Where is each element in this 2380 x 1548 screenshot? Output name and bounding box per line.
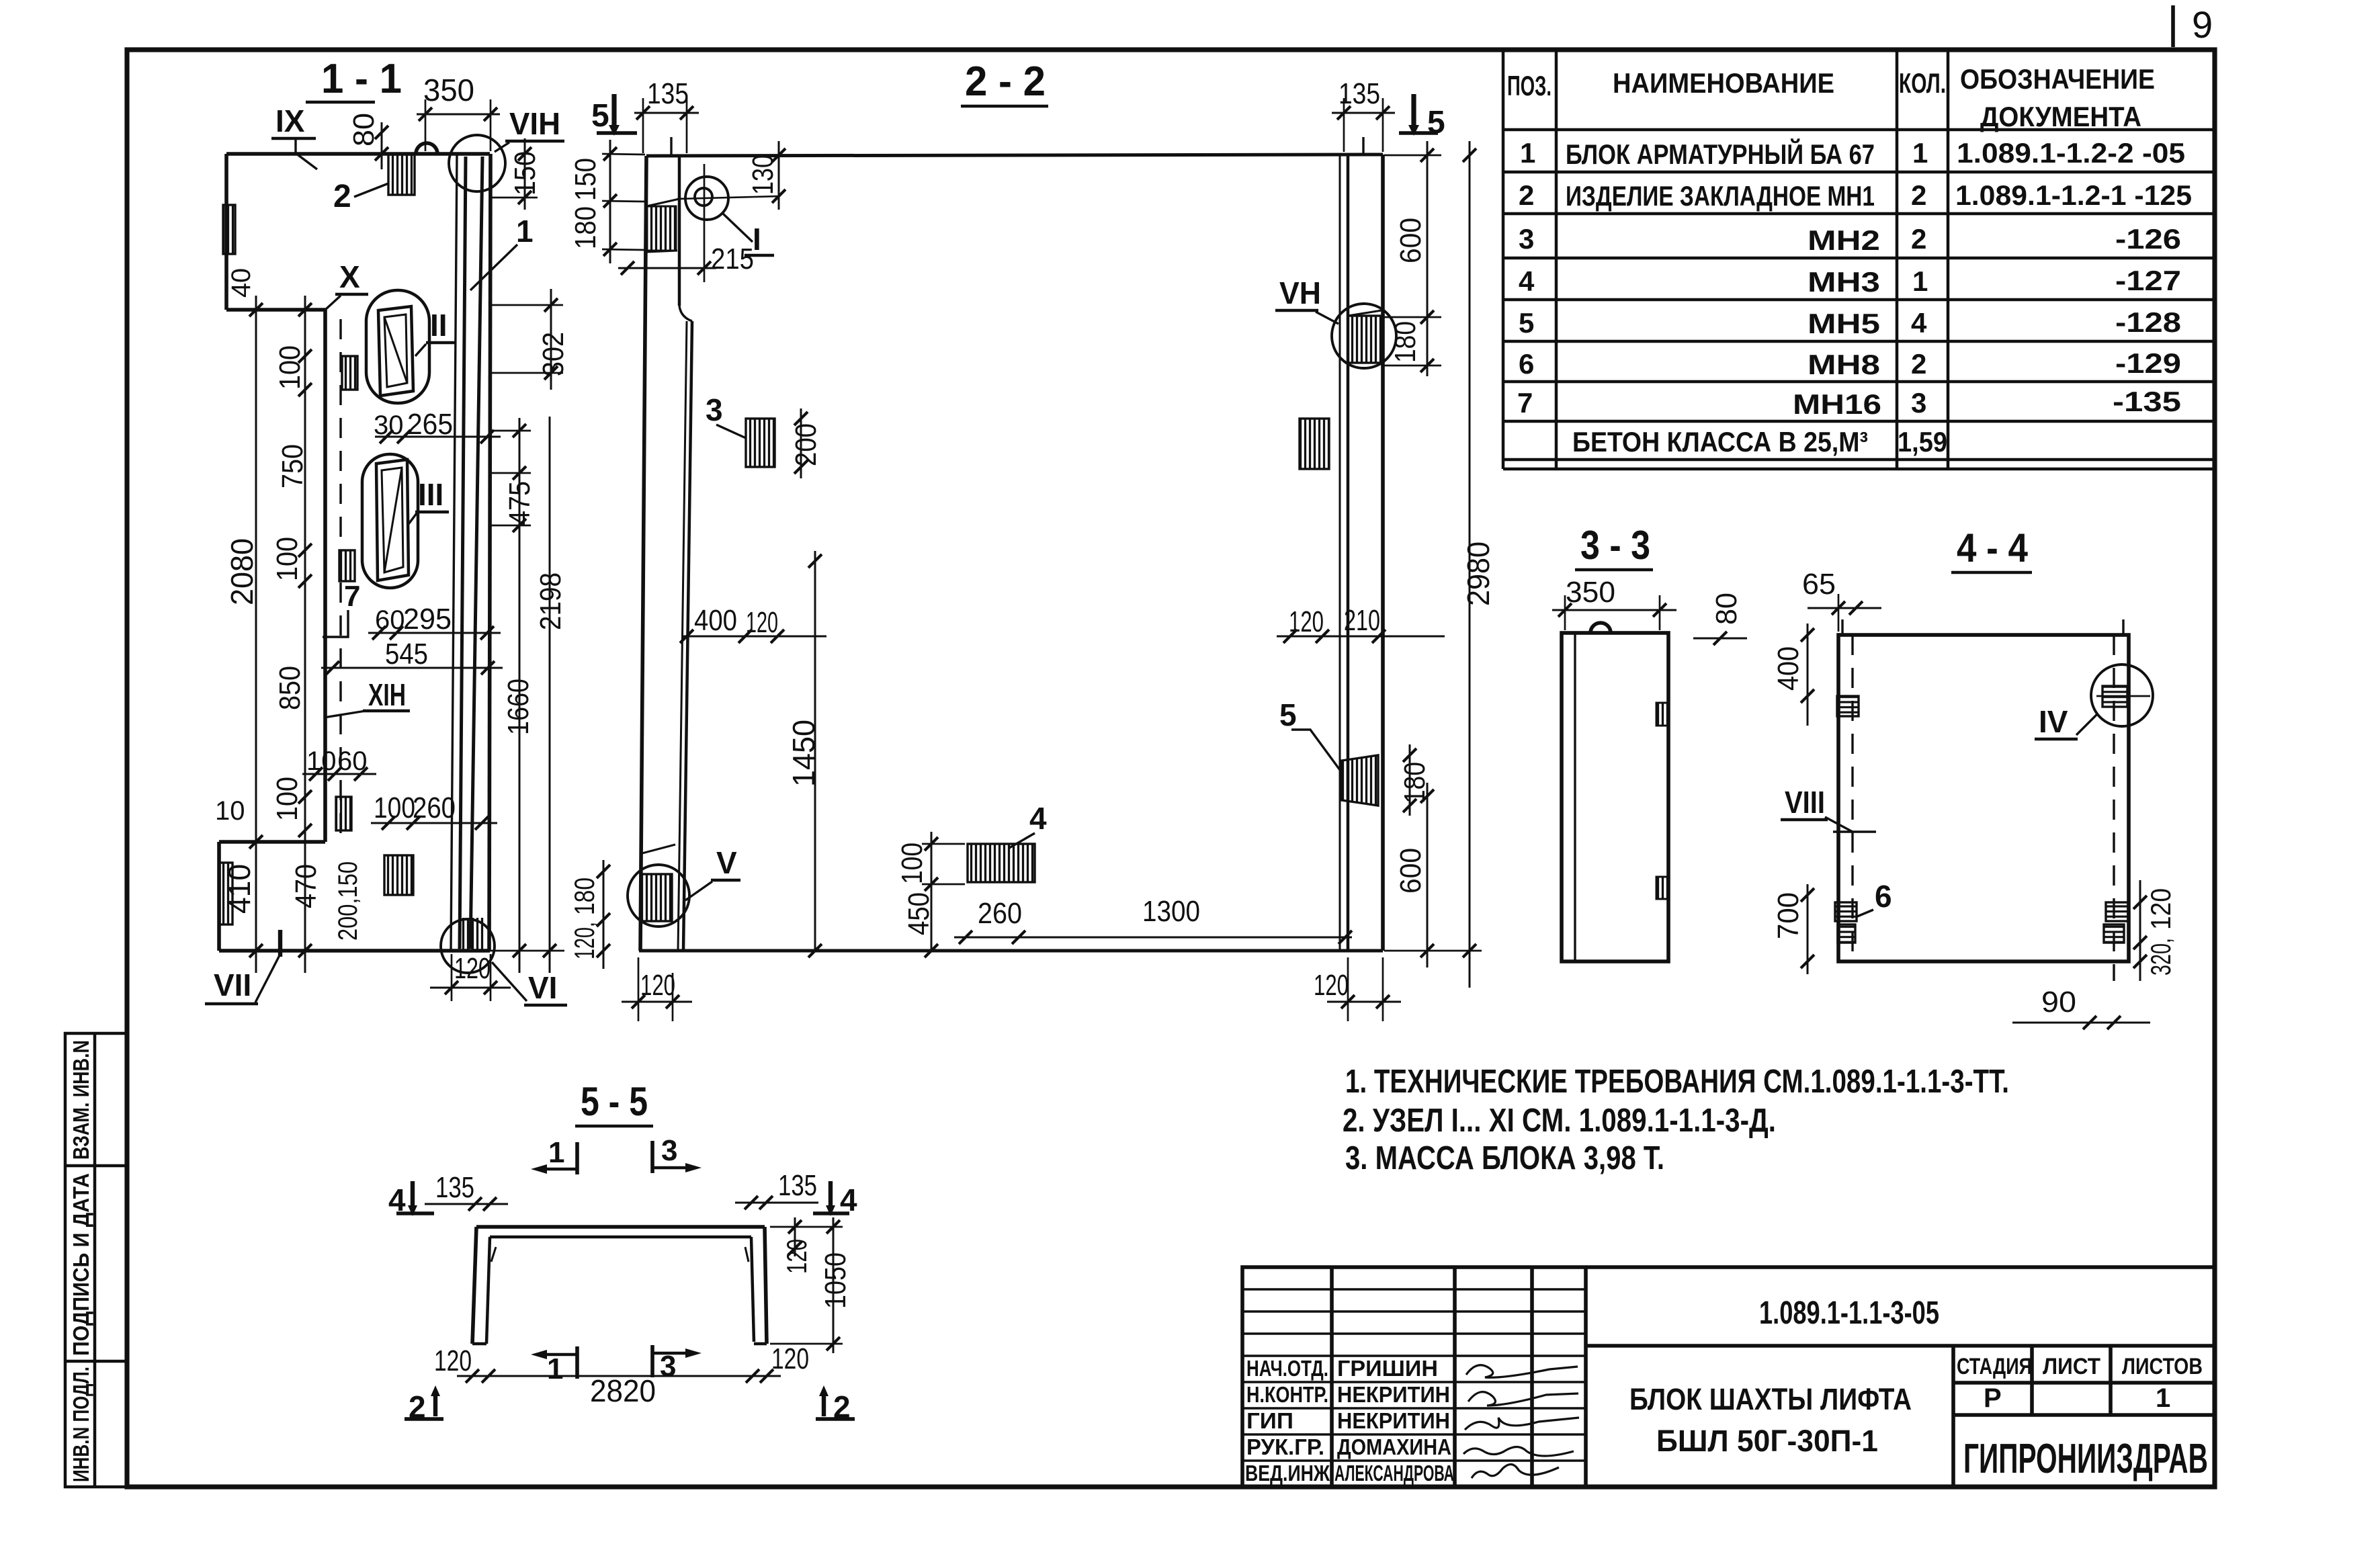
- svg-text:ГИПРОНИИЗДРАВ: ГИПРОНИИЗДРАВ: [1963, 1436, 2208, 1482]
- svg-text:БЛОК АРМАТУРНЫЙ БА 67: БЛОК АРМАТУРНЫЙ БА 67: [1566, 138, 1875, 170]
- jamb plate top-left 2-2: [647, 206, 676, 251]
- right dim 302: [490, 289, 570, 390]
- svg-text:120: 120: [1289, 605, 1324, 638]
- svg-text:5: 5: [1279, 697, 1297, 732]
- section mark 2 right: [816, 1385, 855, 1424]
- svg-text:9: 9: [2192, 3, 2213, 46]
- svg-text:III: III: [418, 477, 443, 512]
- svg-text:БЕТОН КЛАССА В 25,М³: БЕТОН КЛАССА В 25,М³: [1572, 426, 1868, 458]
- svg-text:200,150: 200,150: [333, 861, 363, 941]
- svg-text:180: 180: [1389, 321, 1422, 363]
- dim 350 3-3: [1552, 576, 1676, 630]
- notes text: [1343, 1064, 2009, 1176]
- view 4-4 title: [1951, 525, 2032, 572]
- node XI-H label: [324, 677, 410, 718]
- svg-text:180: 180: [568, 877, 600, 915]
- axis dashed right 4-4: [2113, 635, 2115, 981]
- svg-text:150: 150: [509, 151, 542, 196]
- dim 1450 center: [786, 551, 822, 957]
- plate on axis upper: [342, 356, 357, 390]
- svg-text:350: 350: [423, 73, 474, 107]
- svg-text:3: 3: [1519, 223, 1534, 255]
- svg-text:135: 135: [778, 1169, 817, 1202]
- svg-text:МН16: МН16: [1793, 388, 1881, 420]
- dim 100 260: [371, 791, 497, 830]
- svg-text:3: 3: [660, 1350, 676, 1383]
- axis dashed left 4-4: [1851, 635, 1853, 961]
- svg-text:2 - 2: 2 - 2: [965, 58, 1046, 105]
- svg-text:10: 10: [215, 796, 245, 826]
- svg-text:120: 120: [434, 1344, 472, 1377]
- svg-text:1.089.1-1.2-2 -05: 1.089.1-1.2-2 -05: [1957, 137, 2185, 169]
- svg-text:100: 100: [271, 777, 304, 821]
- svg-text:700: 700: [1772, 892, 1805, 939]
- channel 5-5 outline: [472, 1227, 767, 1344]
- plate right middle: [1300, 419, 1329, 469]
- svg-text:470: 470: [290, 864, 323, 908]
- dim 700 4-4: [1772, 884, 1814, 974]
- svg-text:Р: Р: [1984, 1383, 2002, 1413]
- dim 215 node I: [618, 164, 754, 282]
- svg-text:410: 410: [222, 864, 257, 914]
- table rows text: [1517, 137, 2192, 458]
- svg-text:XIН: XIН: [368, 677, 406, 712]
- svg-text:ИЗДЕЛИЕ ЗАКЛАДНОЕ МН1: ИЗДЕЛИЕ ЗАКЛАДНОЕ МН1: [1566, 180, 1875, 212]
- node VIII circle top: [449, 135, 505, 191]
- view 3-3 title: [1575, 523, 1653, 570]
- node III oval: [362, 454, 418, 588]
- dim 30 265: [374, 408, 501, 443]
- svg-text:150: 150: [569, 158, 602, 201]
- svg-text:400: 400: [694, 604, 737, 637]
- plate 4-4 upper-left: [1837, 696, 1859, 716]
- svg-text:ЛИСТОВ: ЛИСТОВ: [2122, 1354, 2203, 1379]
- left wall 2-2: [640, 156, 692, 951]
- svg-text:5 - 5: 5 - 5: [581, 1079, 648, 1124]
- wall band 1-1: [451, 154, 491, 951]
- svg-text:4: 4: [1029, 801, 1047, 836]
- svg-text:2198: 2198: [534, 572, 567, 630]
- node I circle: [677, 177, 779, 257]
- dim 2820 and 120s bottom 5-5: [434, 1342, 809, 1408]
- svg-text:120,: 120,: [568, 922, 600, 959]
- svg-text:600: 600: [1394, 848, 1427, 894]
- dim 600/180 right top 2-2: [1384, 141, 1441, 376]
- svg-text:VI: VI: [528, 970, 557, 1005]
- svg-text:1 - 1: 1 - 1: [321, 56, 402, 102]
- svg-text:2: 2: [1911, 223, 1926, 255]
- dim 120 bottom right wall: [1314, 957, 1401, 1021]
- svg-text:600: 600: [1394, 218, 1427, 263]
- dim 180 plate 5: [1398, 744, 1431, 816]
- embedded plate 2 (top): [333, 155, 415, 214]
- svg-text:80: 80: [347, 113, 380, 146]
- svg-text:80: 80: [1710, 593, 1743, 625]
- svg-text:IV: IV: [2039, 704, 2068, 739]
- node VII label: [205, 930, 280, 1004]
- plate bottom middle: [384, 855, 413, 895]
- plate on axis lower: [336, 797, 351, 830]
- svg-text:1450: 1450: [786, 720, 821, 787]
- svg-text:750: 750: [276, 444, 309, 488]
- section mark 4 right: [813, 1181, 857, 1217]
- svg-text:СТАДИЯ: СТАДИЯ: [1957, 1354, 2032, 1379]
- node IX label: [271, 103, 317, 169]
- svg-text:-128: -128: [2115, 306, 2181, 338]
- svg-text:3. МАССА БЛОКА 3,98 Т.: 3. МАССА БЛОКА 3,98 Т.: [1345, 1140, 1664, 1176]
- svg-text:5: 5: [1519, 307, 1534, 339]
- dim 320 120 right 4-4: [2133, 880, 2176, 981]
- dim 120 210 right wall mid: [1277, 604, 1445, 643]
- section mark 1 bottom: [531, 1346, 577, 1385]
- node IV circle: [2035, 664, 2153, 739]
- svg-text:Н.КОНТР.: Н.КОНТР.: [1246, 1382, 1328, 1407]
- embedded plate left edge: [223, 205, 235, 254]
- dim 120 rotated right 5-5: [781, 1217, 812, 1274]
- dim 200 plate 3: [790, 408, 822, 478]
- pos 1 leader: [470, 214, 534, 290]
- svg-text:-135: -135: [2113, 386, 2181, 417]
- plate bottom left: [220, 863, 232, 924]
- section cut stub left: [670, 137, 672, 155]
- svg-text:2: 2: [1519, 179, 1534, 211]
- svg-text:МН5: МН5: [1808, 308, 1880, 339]
- svg-text:265: 265: [407, 408, 453, 441]
- svg-text:ДОМАХИНА: ДОМАХИНА: [1337, 1434, 1451, 1459]
- svg-text:260: 260: [978, 897, 1022, 930]
- svg-text:IX: IX: [275, 103, 305, 138]
- title block: [1242, 1267, 2215, 1487]
- node II oval: [366, 290, 429, 403]
- dim 400 120 left wall mid: [680, 604, 826, 643]
- dim 2980: [1384, 141, 1496, 988]
- svg-text:НЕКРИТИН: НЕКРИТИН: [1337, 1382, 1450, 1407]
- svg-text:VIII: VIII: [1785, 785, 1825, 820]
- plate 3-3 lower: [1656, 877, 1668, 899]
- svg-text:2. УЗЕЛ I... XI СМ. 1.089.1-1.: 2. УЗЕЛ I... XI СМ. 1.089.1-1.1-3-Д.: [1343, 1103, 1776, 1139]
- dim 120,180 left bottom rotated: [568, 860, 610, 969]
- svg-text:1: 1: [547, 1352, 563, 1385]
- svg-text:6: 6: [1875, 879, 1892, 914]
- svg-text:2080: 2080: [224, 538, 259, 605]
- svg-text:ИНВ.N ПОДЛ.: ИНВ.N ПОДЛ.: [69, 1367, 93, 1482]
- node III label: [409, 477, 449, 524]
- right dim 150: [490, 138, 542, 210]
- dim 600 right bottom: [1394, 783, 1434, 967]
- svg-text:1. ТЕХНИЧЕСКИЕ ТРЕБОВАНИЯ СМ: 1. ТЕХНИЧЕСКИЕ ТРЕБОВАНИЯ СМ.1.089.1-1.1…: [1345, 1064, 2009, 1100]
- parts table: [1503, 50, 2215, 469]
- dim 60 295: [368, 603, 501, 640]
- svg-text:4: 4: [1519, 265, 1535, 297]
- svg-text:МН2: МН2: [1808, 224, 1880, 256]
- svg-text:1.089.1-1.1-3-05: 1.089.1-1.1-3-05: [1759, 1295, 1939, 1331]
- svg-text:260: 260: [413, 791, 456, 824]
- dim 135 left 5-5: [425, 1171, 508, 1211]
- page number 9: [2173, 3, 2213, 47]
- svg-text:210: 210: [1344, 604, 1380, 637]
- section mark 3 top: [652, 1134, 702, 1173]
- svg-text:120: 120: [1314, 969, 1349, 1002]
- svg-text:АЛЕКСАНДРОВА: АЛЕКСАНДРОВА: [1334, 1461, 1454, 1486]
- dim 260 1300: [954, 895, 1352, 944]
- right wall 2-2: [1340, 155, 1383, 951]
- svg-text:VН: VН: [1279, 275, 1321, 310]
- plate 3-3 upper: [1656, 703, 1668, 726]
- node VI label: [492, 962, 567, 1005]
- svg-text:1: 1: [1912, 265, 1928, 297]
- dim 120 bottom 1-1: [430, 952, 511, 1001]
- svg-text:3 - 3: 3 - 3: [1580, 523, 1650, 568]
- svg-text:VIН: VIН: [509, 106, 560, 141]
- svg-text:120: 120: [454, 952, 491, 985]
- svg-text:215: 215: [711, 243, 754, 275]
- svg-text:МН8: МН8: [1808, 349, 1880, 380]
- svg-text:450: 450: [902, 892, 935, 935]
- left chain dim line 100/750/100/850/100/470: [215, 268, 363, 973]
- svg-text:НЕКРИТИН: НЕКРИТИН: [1337, 1408, 1450, 1433]
- svg-text:2: 2: [1911, 179, 1926, 211]
- node VII circle right: [1275, 275, 1396, 368]
- svg-text:5: 5: [1427, 105, 1445, 140]
- svg-text:135: 135: [435, 1171, 474, 1204]
- svg-text:2: 2: [1911, 348, 1926, 380]
- svg-text:180: 180: [569, 206, 602, 249]
- svg-text:100: 100: [374, 791, 415, 824]
- view 2-2 title: [961, 58, 1048, 106]
- right dim 475 / 1660: [490, 418, 536, 973]
- svg-text:302: 302: [537, 332, 570, 376]
- svg-text:120: 120: [640, 969, 675, 1002]
- plate 3: [706, 392, 775, 467]
- pos 7 label: [323, 580, 360, 637]
- svg-text:400: 400: [1772, 646, 1805, 691]
- svg-text:-129: -129: [2115, 347, 2181, 379]
- svg-text:МН3: МН3: [1808, 266, 1880, 298]
- dim 400 4-4: [1772, 623, 1814, 726]
- svg-text:-126: -126: [2115, 223, 2181, 255]
- view 5-5 title: [575, 1079, 653, 1126]
- svg-text:90: 90: [2041, 986, 2076, 1019]
- svg-text:120: 120: [2145, 888, 2176, 930]
- dim 120 bottom left wall: [622, 957, 692, 1021]
- svg-text:60: 60: [375, 605, 405, 635]
- signatures: [1463, 1365, 1579, 1478]
- table header text: [1507, 63, 2155, 132]
- plates lower-right 4-4: [2104, 902, 2128, 943]
- node II label: [415, 308, 456, 356]
- dim 350 top 1-1: [417, 73, 500, 151]
- svg-text:1300: 1300: [1142, 895, 1200, 928]
- svg-text:120: 120: [771, 1342, 809, 1375]
- section mark 2 left: [403, 1385, 443, 1424]
- section mark 4 left: [388, 1181, 434, 1217]
- svg-text:60: 60: [337, 746, 368, 776]
- dashed axis 1-1: [339, 319, 341, 840]
- svg-text:3: 3: [661, 1134, 677, 1167]
- svg-text:1: 1: [1912, 137, 1928, 169]
- svg-text:65: 65: [1802, 568, 1836, 601]
- plate on axis middle: [339, 550, 355, 581]
- svg-text:ВЕД.ИНЖ: ВЕД.ИНЖ: [1245, 1461, 1330, 1486]
- svg-text:7: 7: [344, 580, 360, 613]
- svg-text:ПОДПИСЬ И ДАТА: ПОДПИСЬ И ДАТА: [69, 1173, 93, 1356]
- svg-text:3: 3: [1911, 387, 1926, 419]
- plate 5 right wall: [1279, 697, 1378, 806]
- view 4-4 body: [1838, 619, 2129, 961]
- svg-text:135: 135: [647, 77, 689, 110]
- dim 545: [321, 638, 503, 675]
- svg-text:БШЛ 50Г-30П-1: БШЛ 50Г-30П-1: [1656, 1424, 1878, 1458]
- svg-text:VII: VII: [214, 967, 251, 1002]
- svg-text:4 - 4: 4 - 4: [1957, 525, 2029, 570]
- svg-text:1050: 1050: [819, 1252, 852, 1309]
- dim 135 right 5-5: [735, 1169, 818, 1209]
- svg-text:ГИП: ГИП: [1246, 1408, 1293, 1433]
- svg-text:ЛИСТ: ЛИСТ: [2043, 1354, 2100, 1379]
- svg-text:30: 30: [374, 411, 404, 440]
- dim 80 3-3: [1693, 593, 1747, 645]
- svg-text:10: 10: [306, 746, 337, 776]
- dim 1050 5-5: [770, 1217, 852, 1353]
- dim 130 node I: [747, 141, 785, 210]
- left dim line 2080/410: [222, 296, 263, 973]
- svg-text:1,59: 1,59: [1898, 426, 1947, 458]
- svg-text:5: 5: [591, 98, 609, 134]
- svg-text:1660: 1660: [502, 679, 535, 735]
- svg-text:100: 100: [896, 843, 929, 884]
- section mark 1 top: [531, 1136, 577, 1174]
- svg-text:РУК.ГР.: РУК.ГР.: [1246, 1434, 1324, 1459]
- dim 150/180 left 2-2: [569, 140, 645, 263]
- svg-text:7: 7: [1517, 387, 1533, 419]
- svg-text:4: 4: [1911, 307, 1927, 339]
- svg-text:НАИМЕНОВАНИЕ: НАИМЕНОВАНИЕ: [1613, 67, 1834, 99]
- section cut stub right: [1362, 137, 1364, 155]
- view 3-3 body: [1562, 633, 1668, 961]
- right dim 2198: [490, 417, 567, 973]
- panel 2-2 bottom edge: [639, 949, 1383, 953]
- dim 100 450 plate 4: [896, 832, 965, 957]
- lifting loop 3-3: [1590, 623, 1611, 633]
- svg-text:1: 1: [2156, 1383, 2170, 1413]
- panel 2-2 top edge: [646, 155, 1383, 156]
- view 1-1 title: [306, 56, 402, 102]
- svg-text:475: 475: [503, 481, 536, 525]
- svg-text:120: 120: [781, 1239, 812, 1274]
- svg-text:120: 120: [746, 606, 778, 639]
- svg-text:100: 100: [273, 345, 306, 390]
- svg-text:350: 350: [1566, 576, 1615, 609]
- svg-text:295: 295: [403, 603, 452, 636]
- svg-text:БЛОК ШАХТЫ ЛИФТА: БЛОК ШАХТЫ ЛИФТА: [1629, 1382, 1912, 1416]
- node VIII-top label: [495, 106, 564, 152]
- section mark 3 bottom: [652, 1345, 702, 1383]
- svg-text:850: 850: [273, 666, 306, 710]
- dim 65 4-4: [1802, 568, 1881, 632]
- svg-text:3: 3: [706, 392, 723, 427]
- svg-text:40: 40: [226, 268, 256, 298]
- svg-text:V: V: [716, 845, 737, 880]
- svg-text:6: 6: [1519, 348, 1534, 380]
- section mark 5 right: [1399, 94, 1445, 140]
- svg-text:1: 1: [1520, 137, 1535, 169]
- svg-text:2980: 2980: [1461, 542, 1496, 606]
- node V circle bottom-left: [628, 845, 740, 927]
- svg-text:ВЗАМ. ИНВ.N: ВЗАМ. ИНВ.N: [69, 1040, 93, 1160]
- svg-text:200: 200: [790, 423, 822, 466]
- plate 4: [968, 801, 1047, 882]
- node X label: [325, 259, 368, 310]
- svg-text:II: II: [430, 308, 448, 343]
- dim 80 top 1-1: [347, 113, 388, 169]
- left margin filing boxes: [65, 1033, 127, 1487]
- dim 90 4-4: [2012, 986, 2150, 1029]
- svg-text:НАЧ.ОТД.: НАЧ.ОТД.: [1246, 1356, 1328, 1381]
- svg-text:320,: 320,: [2145, 938, 2176, 976]
- svg-text:ДОКУМЕНТА: ДОКУМЕНТА: [1980, 101, 2141, 132]
- dim 135 top-left 2-2: [634, 77, 699, 153]
- svg-text:КОЛ.: КОЛ.: [1899, 67, 1946, 99]
- svg-text:2820: 2820: [590, 1373, 656, 1408]
- dim 10 60: [302, 746, 376, 781]
- plate 6 lower-left pair: [1835, 879, 1892, 943]
- svg-text:1.089.1-1.2-1 -125: 1.089.1-1.2-1 -125: [1955, 179, 2192, 211]
- svg-text:X: X: [339, 259, 360, 294]
- node VIII label 4-4: [1781, 785, 1876, 832]
- svg-text:1: 1: [516, 214, 534, 249]
- svg-text:2: 2: [333, 179, 351, 214]
- svg-text:100: 100: [271, 537, 304, 581]
- svg-text:545: 545: [385, 638, 428, 671]
- svg-text:ОБОЗНАЧЕНИЕ: ОБОЗНАЧЕНИЕ: [1960, 63, 2155, 95]
- section mark 5 left: [591, 94, 637, 136]
- svg-text:ПОЗ.: ПОЗ.: [1507, 70, 1552, 101]
- node VI circle bottom: [441, 919, 495, 973]
- svg-text:1: 1: [548, 1136, 564, 1169]
- dim 135 top-right 2-2: [1332, 77, 1395, 152]
- svg-text:130: 130: [747, 155, 779, 195]
- svg-text:ГРИШИН: ГРИШИН: [1337, 1356, 1438, 1381]
- lifting loop 1-1: [416, 143, 437, 154]
- view 1-1 outline: [219, 154, 490, 951]
- svg-text:-127: -127: [2115, 265, 2181, 296]
